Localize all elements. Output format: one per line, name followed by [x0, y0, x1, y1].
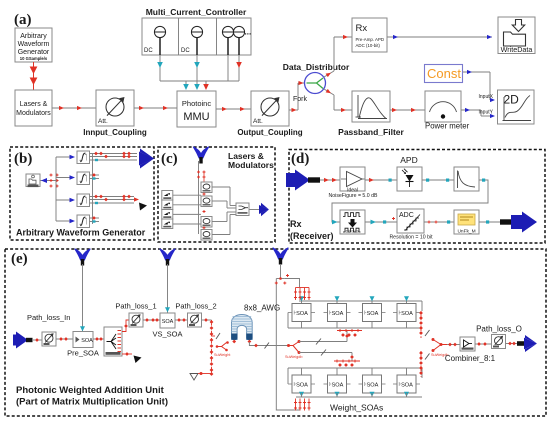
svg-text:(b): (b) — [14, 151, 32, 167]
svg-text:Const: Const — [427, 66, 461, 81]
svg-text:SuWeight: SuWeight — [214, 353, 231, 357]
svg-text:(a): (a) — [14, 12, 32, 28]
svg-text:Rx: Rx — [290, 219, 302, 229]
svg-text:Path_loss_2: Path_loss_2 — [175, 302, 216, 311]
svg-text:Waveform: Waveform — [18, 41, 50, 48]
svg-text:Arbitrary: Arbitrary — [20, 33, 47, 40]
svg-text:Path_loss_O: Path_loss_O — [476, 325, 522, 334]
svg-text:WriteData: WriteData — [501, 45, 533, 54]
svg-text:Innput_Coupling: Innput_Coupling — [83, 128, 147, 137]
svg-text:InputY: InputY — [479, 110, 494, 116]
svg-text:2D: 2D — [504, 93, 520, 107]
svg-text:ADC: ADC — [399, 212, 414, 219]
svg-text:Modulators: Modulators — [228, 160, 274, 170]
svg-text:SuWeigdb: SuWeigdb — [285, 355, 302, 359]
svg-text:Passband_Filter: Passband_Filter — [338, 127, 404, 137]
svg-text:NoiseFigure = 5.0 dB: NoiseFigure = 5.0 dB — [329, 193, 378, 199]
svg-text:Data_Distributor: Data_Distributor — [283, 62, 350, 72]
svg-text:(e): (e) — [11, 251, 28, 267]
svg-text:Lasers &: Lasers & — [20, 101, 48, 108]
svg-text:VS_SOA: VS_SOA — [152, 330, 182, 339]
svg-text:Photonic Weighted Addition Uni: Photonic Weighted Addition Unit — [16, 385, 165, 396]
svg-text:Att.: Att. — [98, 118, 108, 125]
svg-text:Weight_SOAs: Weight_SOAs — [330, 403, 383, 413]
svg-text:(c): (c) — [161, 151, 178, 167]
svg-text:...: ... — [245, 28, 252, 37]
svg-text:SOA: SOA — [81, 338, 93, 344]
svg-text:DC block: DC block — [346, 230, 360, 234]
svg-text:InputX: InputX — [479, 94, 494, 100]
svg-text:Att.: Att. — [253, 118, 263, 125]
svg-text:Combiner_8:1: Combiner_8:1 — [445, 354, 496, 363]
svg-text:(d): (d) — [291, 151, 309, 167]
svg-text:Path_loss_In: Path_loss_In — [27, 313, 70, 322]
svg-text:DC: DC — [144, 48, 153, 54]
svg-text:(Part of Matrix Multiplication: (Part of Matrix Multiplication Unit) — [16, 397, 168, 408]
svg-text:MMU: MMU — [183, 111, 209, 123]
svg-text:SOA: SOA — [162, 319, 174, 325]
svg-text:Generator: Generator — [18, 49, 50, 56]
svg-text:ADC (10-bit): ADC (10-bit) — [356, 43, 381, 48]
svg-text:Multi_Current_Controller: Multi_Current_Controller — [146, 7, 247, 17]
svg-text:Pre_SOA: Pre_SOA — [67, 349, 99, 358]
svg-text:APD: APD — [400, 155, 417, 165]
svg-text:(Receiver): (Receiver) — [290, 231, 334, 241]
svg-text:Photoinc: Photoinc — [182, 99, 211, 108]
svg-text:10 GSample/s: 10 GSample/s — [20, 56, 48, 61]
svg-text:Fork: Fork — [293, 96, 308, 103]
svg-text:Path_loss_1: Path_loss_1 — [115, 302, 156, 311]
svg-text:Pre-Amp. APD: Pre-Amp. APD — [356, 37, 385, 42]
svg-text:UnFk_M: UnFk_M — [457, 229, 475, 235]
svg-text:Resolution = 10 bit: Resolution = 10 bit — [389, 235, 433, 241]
svg-text:Rx: Rx — [356, 23, 368, 34]
svg-text:Arbitrary Waveform Generator: Arbitrary Waveform Generator — [16, 228, 146, 238]
svg-text:DC: DC — [181, 48, 190, 54]
svg-text:Modulators: Modulators — [16, 110, 51, 117]
svg-text:8x8_AWG: 8x8_AWG — [244, 304, 280, 313]
svg-text:Output_Coupling: Output_Coupling — [237, 128, 302, 137]
svg-text:Power meter: Power meter — [425, 122, 470, 131]
